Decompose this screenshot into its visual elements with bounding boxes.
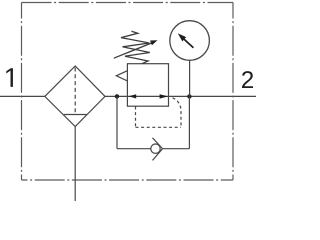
check valve V1: seat upper arm xyxy=(153,138,163,149)
wire: main pipe line port 1 to port 2 xyxy=(0,95,256,97)
regulator R1: right flow arrowhead xyxy=(160,94,169,98)
filter F1: diamond body xyxy=(45,66,105,127)
regulator R1: valve body box xyxy=(127,64,168,106)
wire: check-valve loop bottom left segment xyxy=(117,148,151,150)
regulator R1: relief vent triangle xyxy=(116,71,127,81)
regulator R1: adjustment arrow shaft xyxy=(114,43,153,59)
regulator R1: pilot line dashed bottom horizontal xyxy=(136,126,182,128)
wire: check-valve loop right vertical up to pipe xyxy=(188,96,190,148)
gauge G1: stem xyxy=(189,60,191,96)
regulator R1: left flow arrowhead xyxy=(129,94,137,98)
gauge G1: needle shaft xyxy=(183,39,193,48)
enclosure border: right dash-dot line xyxy=(232,3,234,181)
regulator R1: pilot line dashed left vertical xyxy=(135,107,137,128)
enclosure border: bottom dash-dot line xyxy=(22,179,234,181)
check valve V1: ball circle xyxy=(151,144,160,153)
wire: check-valve loop bottom right segment xyxy=(162,148,189,150)
port label 1 xyxy=(6,68,13,87)
regulator R1: adjustment arrow head xyxy=(150,40,157,45)
enclosure border: left dash-dot line xyxy=(21,3,23,181)
wire: check-valve loop left vertical xyxy=(116,96,118,148)
port label 2 xyxy=(242,71,253,88)
regulator R1: setting spring zigzag xyxy=(121,31,150,64)
node: check-valve branch junction (left dot) xyxy=(115,94,119,98)
check valve V1: seat lower arm xyxy=(153,149,163,161)
wire: condensate drain line xyxy=(74,127,76,202)
enclosure border: top dash-dot line xyxy=(22,2,234,4)
gauge G1: dial circle xyxy=(170,21,210,61)
filter F1: filter element (dashed vertical) xyxy=(74,68,76,115)
gauge G1: needle arrowhead xyxy=(178,33,186,41)
regulator R1: pilot line dashed right curve from output xyxy=(173,98,182,128)
node: gauge branch junction (right dot) xyxy=(187,94,191,98)
filter F1: water separator line xyxy=(64,114,87,116)
